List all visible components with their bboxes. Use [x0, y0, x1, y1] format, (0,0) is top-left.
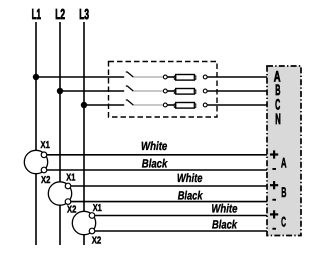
- svg-text:X1: X1: [66, 172, 75, 183]
- svg-text:B: B: [281, 184, 286, 200]
- svg-text:L1: L1: [32, 7, 41, 23]
- svg-text:X1: X1: [41, 140, 51, 151]
- svg-text:C: C: [281, 214, 286, 230]
- svg-text:L3: L3: [79, 7, 89, 23]
- svg-text:X2: X2: [67, 204, 77, 215]
- svg-text:White: White: [141, 139, 168, 153]
- svg-text:Black: Black: [142, 156, 169, 170]
- svg-text:White: White: [177, 171, 203, 185]
- svg-text:X1: X1: [93, 203, 102, 214]
- svg-text:Black: Black: [178, 188, 204, 202]
- svg-text:White: White: [211, 201, 237, 215]
- svg-text:X2: X2: [92, 235, 102, 246]
- svg-text:A: A: [281, 155, 287, 171]
- svg-text:X2: X2: [41, 175, 51, 186]
- svg-text:L2: L2: [55, 7, 65, 23]
- svg-text:N: N: [275, 111, 281, 128]
- svg-text:Black: Black: [212, 217, 238, 231]
